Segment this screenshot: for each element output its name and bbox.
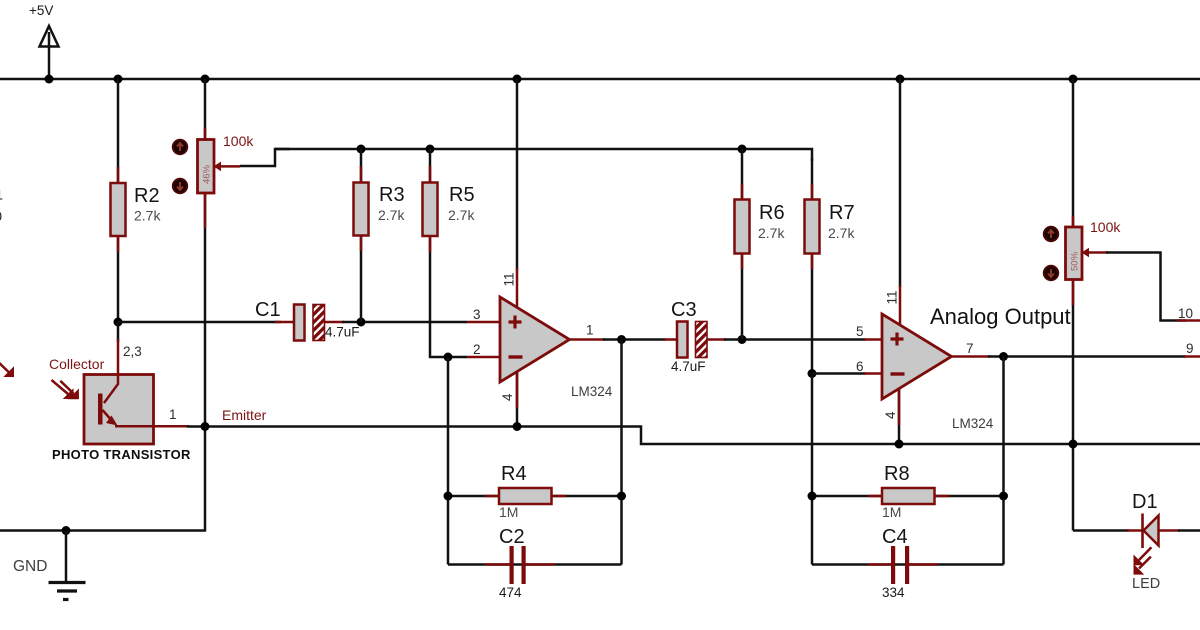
svg-text:7: 7 [966, 341, 974, 356]
wire ground rail left segment [187, 427, 1200, 445]
resistor R3 2.7k [354, 166, 406, 251]
svg-text:334: 334 [882, 585, 905, 600]
resistor R7 2.7k [805, 184, 856, 269]
resistor R5 2.7k [423, 166, 476, 252]
svg-text:50%: 50% [1070, 251, 1081, 271]
svg-text:3: 3 [473, 307, 481, 322]
wire R5 bottom to U1 pin2 [430, 236, 467, 357]
junction U2 pin6 node [808, 369, 817, 378]
junction U1 pin11 on rail [513, 75, 522, 84]
wire RV1 wiper step to reference line [240, 149, 290, 166]
svg-text:46%: 46% [202, 164, 213, 184]
svg-text:9: 9 [1186, 341, 1194, 356]
svg-text:1M: 1M [882, 504, 901, 520]
junction GND branch [62, 526, 71, 535]
svg-text:R8: R8 [884, 463, 910, 485]
wire pin6 node to U2 [812, 372, 866, 375]
junction RV1 on rail [201, 75, 210, 84]
svg-text:4: 4 [883, 411, 898, 419]
wire R3 bottom to C1 node [360, 235, 363, 322]
svg-text:11: 11 [502, 272, 517, 286]
resistor R8 1M [868, 463, 949, 520]
svg-text:5: 5 [856, 324, 864, 339]
svg-text:C2: C2 [499, 526, 525, 548]
wire U2 pin11 from rail [899, 79, 902, 287]
svg-text:2: 2 [473, 342, 481, 357]
LED D1 [1127, 491, 1180, 592]
svg-text:2.7k: 2.7k [378, 207, 405, 223]
svg-text:LM324: LM324 [571, 384, 613, 399]
junction U1 pin4 on ground rail [513, 422, 522, 431]
svg-text:PHOTO TRANSISTOR: PHOTO TRANSISTOR [52, 447, 191, 462]
svg-text:R4: R4 [501, 463, 527, 485]
svg-text:4: 4 [500, 393, 515, 401]
svg-text:LED: LED [1132, 576, 1160, 592]
wire R5 top [429, 149, 432, 183]
svg-text:6: 6 [856, 359, 864, 374]
wire R6 bottom to C3 node [741, 253, 744, 340]
svg-text:1M: 1M [499, 504, 518, 520]
junction R2 on rail [114, 75, 123, 84]
junction C1/R3/pin3 node [357, 318, 366, 327]
wire rail to RV2 [1072, 79, 1075, 228]
wire R8 row [812, 495, 1004, 498]
svg-text:C3: C3 [671, 299, 697, 321]
wire C3 to U2 pin5 [724, 338, 866, 341]
wire rail to R2 [117, 79, 120, 183]
wire R6 top [741, 149, 744, 200]
LED emission arrow upper [1134, 547, 1152, 565]
wire feedback left vertical U2 (pin6 to C4) [811, 374, 814, 565]
junction C3/R6 node [738, 335, 747, 344]
wire feedback left vertical U1 (pin2 to C2) [447, 357, 450, 565]
svg-text:2.7k: 2.7k [448, 207, 475, 223]
svg-text:R2: R2 [134, 185, 160, 207]
junction R6 top [738, 145, 747, 154]
wire U1 output [570, 338, 606, 341]
junction U2 pin11 on rail [896, 75, 905, 84]
junction R4 right [617, 492, 626, 501]
light arrow into Q1 lower [60, 381, 79, 399]
svg-text:R6: R6 [759, 202, 785, 224]
node collector junction [114, 318, 123, 327]
wire RV2 wiper to right edge pin 10 [1106, 253, 1186, 321]
svg-text:1: 1 [169, 407, 177, 422]
op-amp U1 LM324 [467, 272, 613, 401]
wire U1 pin4 to ground rail [516, 372, 519, 427]
svg-text:4.7uF: 4.7uF [671, 359, 706, 374]
potentiometer RV2 100k [1044, 219, 1122, 280]
junction R8 left [808, 492, 817, 501]
svg-text:100k: 100k [223, 133, 254, 149]
wire feedback right vertical U1 (output to C2) [620, 340, 623, 565]
svg-text:Analog Output: Analog Output [930, 304, 1071, 329]
junction R8 right [999, 492, 1008, 501]
svg-text:2.7k: 2.7k [758, 225, 785, 241]
svg-text:0: 0 [0, 209, 2, 224]
LED emission arrow lower [1134, 557, 1151, 575]
svg-text:R5: R5 [449, 184, 475, 206]
wire reference line to R7 [275, 149, 812, 161]
junction U2 output node [999, 352, 1008, 361]
junction +5V on rail [45, 75, 54, 84]
svg-text:11: 11 [885, 290, 900, 304]
svg-text:C1: C1 [255, 299, 281, 321]
potentiometer RV1 100k [173, 133, 255, 193]
wire C2 row [448, 563, 622, 566]
wire LED to right edge [1178, 529, 1200, 532]
wire U1 pin11 from rail [516, 79, 519, 270]
svg-text:474: 474 [499, 585, 522, 600]
wire GND stem [65, 531, 68, 582]
resistor R2 2.7k [111, 167, 162, 252]
resistor R4 1M [485, 463, 566, 520]
junction U1 output node [617, 335, 626, 344]
wire R2 to collector node [117, 236, 120, 322]
light arrow into Q1 upper [52, 380, 74, 399]
svg-text:D1: D1 [1132, 491, 1158, 513]
wire collector node to C1 [118, 321, 281, 324]
junction R5 top [426, 145, 435, 154]
capacitor C1 4.7uF [255, 299, 360, 341]
svg-text:1: 1 [0, 188, 3, 203]
wire LED row [1073, 529, 1129, 532]
junction emitter node [201, 422, 210, 431]
svg-text:2.7k: 2.7k [134, 208, 161, 224]
junction RV2 on rail [1069, 75, 1078, 84]
svg-text:2,3: 2,3 [123, 344, 142, 359]
wire R7 bottom to U2 pin6 node [811, 253, 814, 374]
junction feedback on pin2 wire [444, 353, 453, 362]
svg-text:GND: GND [13, 558, 47, 575]
svg-text:10: 10 [1178, 306, 1193, 321]
wire R4 row [448, 495, 622, 498]
resistor R6 2.7k [735, 184, 786, 269]
svg-text:1: 1 [586, 323, 594, 338]
svg-text:LM324: LM324 [952, 416, 994, 431]
ground symbol [13, 558, 86, 600]
junction R3 top [357, 145, 366, 154]
capacitor C2 474 [485, 526, 555, 600]
+5V supply symbol [29, 3, 59, 79]
svg-text:Collector: Collector [49, 356, 105, 372]
svg-text:100k: 100k [1090, 219, 1121, 235]
svg-text:+5V: +5V [29, 3, 53, 18]
+5V power rail wire [0, 78, 1200, 81]
capacitor C4 334 [868, 526, 938, 600]
svg-text:4.7uF: 4.7uF [325, 325, 360, 340]
wire rail to RV1 [204, 79, 207, 140]
svg-text:2.7k: 2.7k [828, 225, 855, 241]
wire U2 pin4 to ground rail [898, 389, 901, 444]
svg-text:R3: R3 [379, 184, 405, 206]
op-amp U2 LM324 [856, 290, 994, 431]
capacitor C3 4.7uF [664, 299, 726, 374]
wire C4 row [812, 563, 1004, 566]
wire emitter node down to ground corner [0, 427, 205, 531]
wire RV2 bottom to ground rail and LED corner [1072, 279, 1075, 531]
wire C1 to U1 pin3 [342, 321, 467, 324]
svg-text:R7: R7 [829, 202, 855, 224]
photo transistor Q1 [49, 322, 267, 462]
wire feedback right vertical U2 (output to C4) [1002, 357, 1005, 565]
wire R3 top [360, 149, 363, 183]
wire U2 output to right edge pin 9 [952, 355, 991, 358]
cut-off light arrow at left edge [0, 358, 14, 377]
wire R7 top (corner from reference line) [811, 158, 814, 200]
junction U2 pin4 on ground rail [895, 440, 904, 449]
junction R4 left [444, 492, 453, 501]
junction RV2 bottom on ground rail [1069, 440, 1078, 449]
svg-text:C4: C4 [882, 526, 908, 548]
svg-text:Emitter: Emitter [222, 407, 267, 423]
wire RV1 bottom to emitter node [204, 193, 207, 427]
